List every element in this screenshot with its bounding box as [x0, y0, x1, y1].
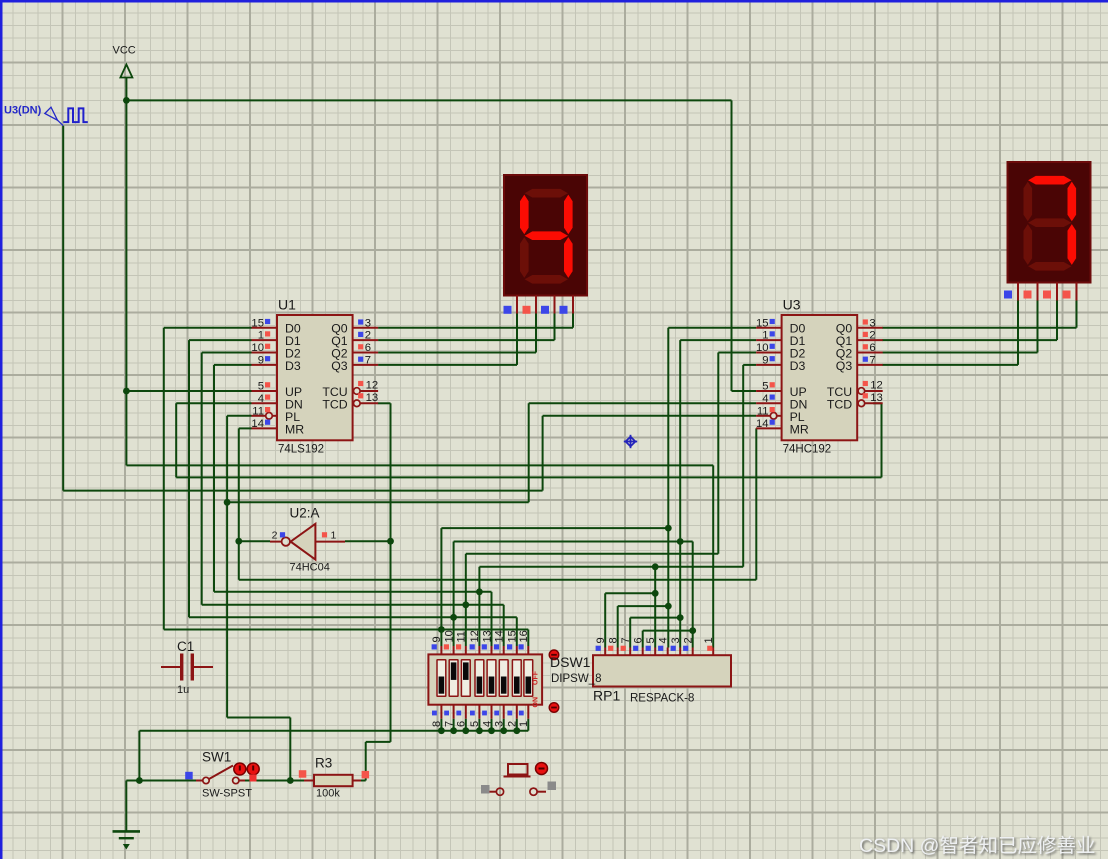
svg-text:12: 12 — [870, 380, 883, 392]
svg-text:13: 13 — [366, 392, 379, 404]
svg-text:RESPACK-8: RESPACK-8 — [630, 692, 694, 704]
svg-text:7: 7 — [620, 637, 632, 643]
svg-text:1: 1 — [762, 330, 768, 342]
svg-text:5: 5 — [469, 721, 481, 727]
svg-text:ON: ON — [533, 697, 540, 708]
svg-text:11: 11 — [757, 405, 769, 417]
svg-text:11: 11 — [456, 631, 468, 642]
svg-text:7: 7 — [443, 721, 455, 727]
wire U1 D3 — [214, 364, 252, 366]
node SW1 left junction — [136, 777, 143, 784]
svg-text:7: 7 — [365, 355, 371, 367]
node ground bus junction — [500, 727, 507, 734]
wire VCC stub down — [125, 78, 127, 100]
wire TCD to R3 — [366, 741, 391, 743]
display DS1 pins — [516, 296, 518, 314]
wire PL net to switch — [227, 717, 290, 719]
label DSW1 — [550, 654, 602, 685]
svg-text:1: 1 — [703, 637, 715, 643]
node ground bus junction — [488, 727, 495, 734]
wire PL bus — [227, 501, 529, 503]
wire U1 Q0 to display — [378, 327, 573, 329]
svg-text:3: 3 — [869, 317, 875, 329]
node DSW bus junction — [450, 614, 457, 621]
wire ground drop — [125, 781, 127, 832]
svg-text:3: 3 — [670, 637, 682, 643]
wire probe bus — [63, 490, 542, 492]
wire U3 Q0 to display — [882, 327, 1076, 329]
wire RP1 pin6 link — [642, 631, 644, 648]
svg-text:4: 4 — [481, 721, 493, 727]
node ground bus junction — [438, 727, 445, 734]
wire ground to SW1 — [126, 780, 196, 782]
probe U3(DN) clock generator — [4, 105, 88, 126]
wire U1 MR — [239, 427, 252, 429]
svg-text:100k: 100k — [316, 788, 340, 800]
node DSW bus junction — [438, 626, 445, 633]
svg-text:74HC192: 74HC192 — [783, 444, 832, 456]
svg-text:15: 15 — [756, 317, 769, 329]
svg-text:4: 4 — [258, 393, 264, 405]
resistor R3 100k — [299, 756, 369, 800]
node RP link junction — [652, 590, 659, 597]
svg-text:10: 10 — [251, 342, 264, 354]
wire DSW1 pin 2 to ground bus — [516, 719, 518, 731]
svg-text:9: 9 — [258, 355, 264, 367]
wire DSW1 pin 14 vertical — [503, 605, 505, 646]
node RP link junction — [677, 614, 684, 621]
svg-text:16: 16 — [518, 630, 530, 642]
switch SW1 SW-SPST — [185, 750, 259, 800]
wire DSW1 pin 7 to ground bus — [453, 719, 455, 731]
wire SW1 to R3 — [245, 780, 304, 782]
ground symbol — [113, 831, 141, 849]
svg-text:6: 6 — [365, 342, 371, 354]
svg-text:8: 8 — [431, 721, 443, 727]
wire U3 D2 — [717, 353, 719, 554]
wire riser to DIP bus — [138, 731, 140, 781]
wire preset riser C — [466, 553, 719, 555]
node ground bus junction — [476, 727, 483, 734]
wire RP1 pin2 riser — [692, 542, 694, 648]
svg-text:1: 1 — [518, 721, 530, 727]
wire VCC vertical to U1 UP — [125, 100, 127, 391]
wire DSW1 pin 16 vertical — [527, 630, 529, 647]
blue drawing-sheet border left — [0, 0, 3, 859]
svg-text:7: 7 — [869, 355, 875, 367]
svg-text:14: 14 — [251, 418, 264, 430]
svg-text:1u: 1u — [177, 684, 189, 696]
svg-text:2: 2 — [869, 330, 875, 342]
svg-text:U1: U1 — [278, 296, 296, 312]
wire data bus C — [189, 616, 517, 618]
svg-text:10: 10 — [443, 630, 455, 642]
wire U3 D3 — [742, 365, 744, 567]
wire DSW1 pin 6 to ground bus — [465, 719, 467, 731]
svg-text:6: 6 — [456, 721, 468, 727]
node R3 left junction — [287, 777, 294, 784]
wire U1 DN — [176, 402, 251, 404]
wire U1 D2 — [202, 352, 252, 354]
wire data bus A — [214, 591, 492, 593]
node ground bus junction — [450, 727, 457, 734]
svg-text:R3: R3 — [315, 756, 332, 771]
wire preset riser A — [441, 527, 668, 529]
svg-text:12: 12 — [469, 630, 481, 642]
wire VCC drop to U3 UP — [731, 100, 733, 391]
wire DSW1 pin 10 vertical — [453, 542, 455, 647]
svg-text:3: 3 — [494, 721, 506, 727]
wire VCC vertical continues — [125, 391, 127, 465]
svg-text:10: 10 — [756, 342, 769, 354]
power VCC symbol — [113, 45, 136, 78]
svg-text:Q3: Q3 — [331, 359, 348, 373]
wire DSW1 pin 4 to ground bus — [491, 719, 493, 731]
svg-text:11: 11 — [252, 405, 264, 417]
wire U1 PL — [227, 415, 251, 417]
node PL bus junction — [224, 499, 231, 506]
wire VCC bus to RP1 pin1 — [126, 464, 713, 466]
svg-text:D3: D3 — [285, 359, 301, 373]
svg-text:74LS192: 74LS192 — [278, 444, 324, 456]
wire U1 Q3 to display — [378, 364, 517, 366]
node inverter input tap — [387, 538, 394, 545]
svg-text:U3: U3 — [783, 296, 801, 312]
svg-text:1: 1 — [331, 529, 337, 541]
wire RP1 pin9 link — [604, 593, 606, 647]
wire riser to U3 MR — [755, 428, 757, 579]
node riser-D1 junction — [677, 538, 684, 545]
svg-text:2: 2 — [365, 330, 371, 342]
counter U1 74LS192 — [251, 296, 378, 455]
wire DSW1 pin 12 vertical — [478, 567, 480, 646]
wire DSW1 pin 11 vertical — [465, 554, 467, 646]
svg-text:14: 14 — [756, 418, 769, 430]
wire DSW1 pin 15 vertical — [516, 617, 518, 646]
wire riser to U3 DN — [528, 403, 530, 502]
svg-text:5: 5 — [258, 381, 264, 393]
svg-text:U2:A: U2:A — [290, 506, 320, 521]
node RP link junction — [665, 603, 672, 610]
svg-text:RP1: RP1 — [593, 688, 620, 704]
wire data bus B — [202, 604, 504, 606]
svg-text:12: 12 — [366, 380, 379, 392]
wire U1 D0 — [164, 327, 252, 329]
wire U1 Q2 to display — [378, 352, 536, 354]
wire VCC horizontal top rail — [126, 99, 731, 101]
blue drawing-sheet border top — [0, 0, 1108, 3]
svg-text:14: 14 — [494, 630, 506, 642]
svg-text:6: 6 — [633, 637, 645, 643]
svg-text:4: 4 — [762, 393, 768, 405]
display DS2 pins — [1017, 283, 1019, 301]
svg-text:74HC04: 74HC04 — [290, 562, 330, 574]
svg-text:SW-SPST: SW-SPST — [202, 788, 252, 800]
svg-text:9: 9 — [431, 636, 443, 642]
switch DSW1 DIPSW_8 — [428, 630, 558, 727]
svg-text:5: 5 — [645, 637, 657, 643]
wire DIP switch bottom bus — [139, 730, 528, 732]
svg-text:13: 13 — [870, 392, 883, 404]
svg-text:2: 2 — [683, 637, 695, 643]
svg-text:U3(DN): U3(DN) — [4, 105, 42, 117]
wire to U1 UP pin — [126, 390, 251, 392]
wire DSW1 pin 8 to ground bus — [440, 719, 442, 731]
svg-text:DSW1: DSW1 — [550, 654, 591, 670]
wire U3 Q3 to display — [882, 364, 1018, 366]
wire inverter input — [345, 540, 391, 542]
svg-text:9: 9 — [762, 355, 768, 367]
wire clock probe vertical — [62, 126, 64, 491]
wire DSW1 pin 1 to ground bus — [527, 719, 529, 731]
svg-text:DIPSW_8: DIPSW_8 — [551, 673, 602, 685]
node DSW bus junction — [462, 601, 469, 608]
node RP link junction — [689, 627, 696, 634]
svg-text:2: 2 — [507, 721, 519, 727]
svg-text:C1: C1 — [177, 639, 194, 654]
display DS2 showing 7 — [1008, 162, 1091, 283]
svg-text:TCD: TCD — [322, 397, 347, 411]
wire U3 D0 — [667, 328, 669, 648]
wire data bus D — [164, 629, 529, 631]
node riser-D0 junction — [665, 525, 672, 532]
wire preset riser B — [454, 541, 693, 543]
wire RP1 pin8 link — [617, 606, 619, 647]
watermark — [859, 829, 1095, 858]
svg-text:3: 3 — [365, 317, 371, 329]
svg-text:2: 2 — [272, 529, 278, 541]
wire preset riser D — [479, 566, 743, 568]
wire U3 Q2 to display — [882, 352, 1037, 354]
wire DSW1 pin 9 vertical — [440, 528, 442, 646]
wire U3 Q1 to display — [882, 339, 1057, 341]
wire DSW1 pin 3 to ground bus — [503, 719, 505, 731]
wire U3 D1 — [679, 340, 681, 647]
push button (unwired) — [481, 763, 556, 796]
resistor pack RP1 RESPACK-8 — [593, 637, 731, 704]
svg-text:MR: MR — [285, 422, 304, 436]
svg-text:6: 6 — [869, 342, 875, 354]
svg-text:TCD: TCD — [827, 397, 852, 411]
wire inverter output to MR net — [239, 540, 270, 542]
node U1 UP junction — [123, 388, 130, 395]
wire riser to U3 PL — [542, 416, 544, 491]
wire U1 Q1 to display — [378, 339, 554, 341]
node inverter output junction — [235, 538, 242, 545]
svg-text:15: 15 — [251, 317, 264, 329]
svg-text:13: 13 — [481, 630, 493, 642]
node riser-p5 junction — [652, 563, 659, 570]
svg-text:VCC: VCC — [113, 45, 136, 57]
wire DSW1 pin 13 vertical — [491, 592, 493, 646]
sheet origin marker — [624, 435, 637, 448]
counter U3 74HC192 — [756, 296, 883, 455]
wire RP1 pin7 link — [629, 618, 631, 648]
capacitor C1 1u — [161, 639, 213, 696]
svg-text:15: 15 — [507, 630, 519, 642]
svg-text:9: 9 — [595, 637, 607, 643]
wire borrow bus to U3 TCD — [176, 476, 881, 478]
wire U1 TCD down — [378, 402, 391, 404]
svg-text:1: 1 — [258, 330, 264, 342]
wire DSW1 pin 5 to ground bus — [478, 719, 480, 731]
svg-text:SW1: SW1 — [202, 750, 231, 765]
display DS1 showing 4 — [504, 175, 587, 296]
svg-text:Q3: Q3 — [836, 359, 853, 373]
node VCC junction — [123, 97, 130, 104]
op-amp U2:A 74HC04 inverter — [270, 506, 345, 574]
svg-text:4: 4 — [658, 637, 670, 643]
svg-text:5: 5 — [762, 381, 768, 393]
svg-text:D3: D3 — [790, 359, 806, 373]
node ground bus junction — [513, 727, 520, 734]
node ground bus junction — [462, 727, 469, 734]
svg-text:8: 8 — [608, 637, 620, 643]
wire RP1 pin1 riser — [712, 465, 714, 647]
svg-text:OFF: OFF — [533, 670, 540, 685]
svg-text:MR: MR — [790, 422, 809, 436]
node DSW bus junction — [476, 588, 483, 595]
wire MR bus — [239, 579, 757, 581]
wire U1 D1 — [189, 339, 252, 341]
